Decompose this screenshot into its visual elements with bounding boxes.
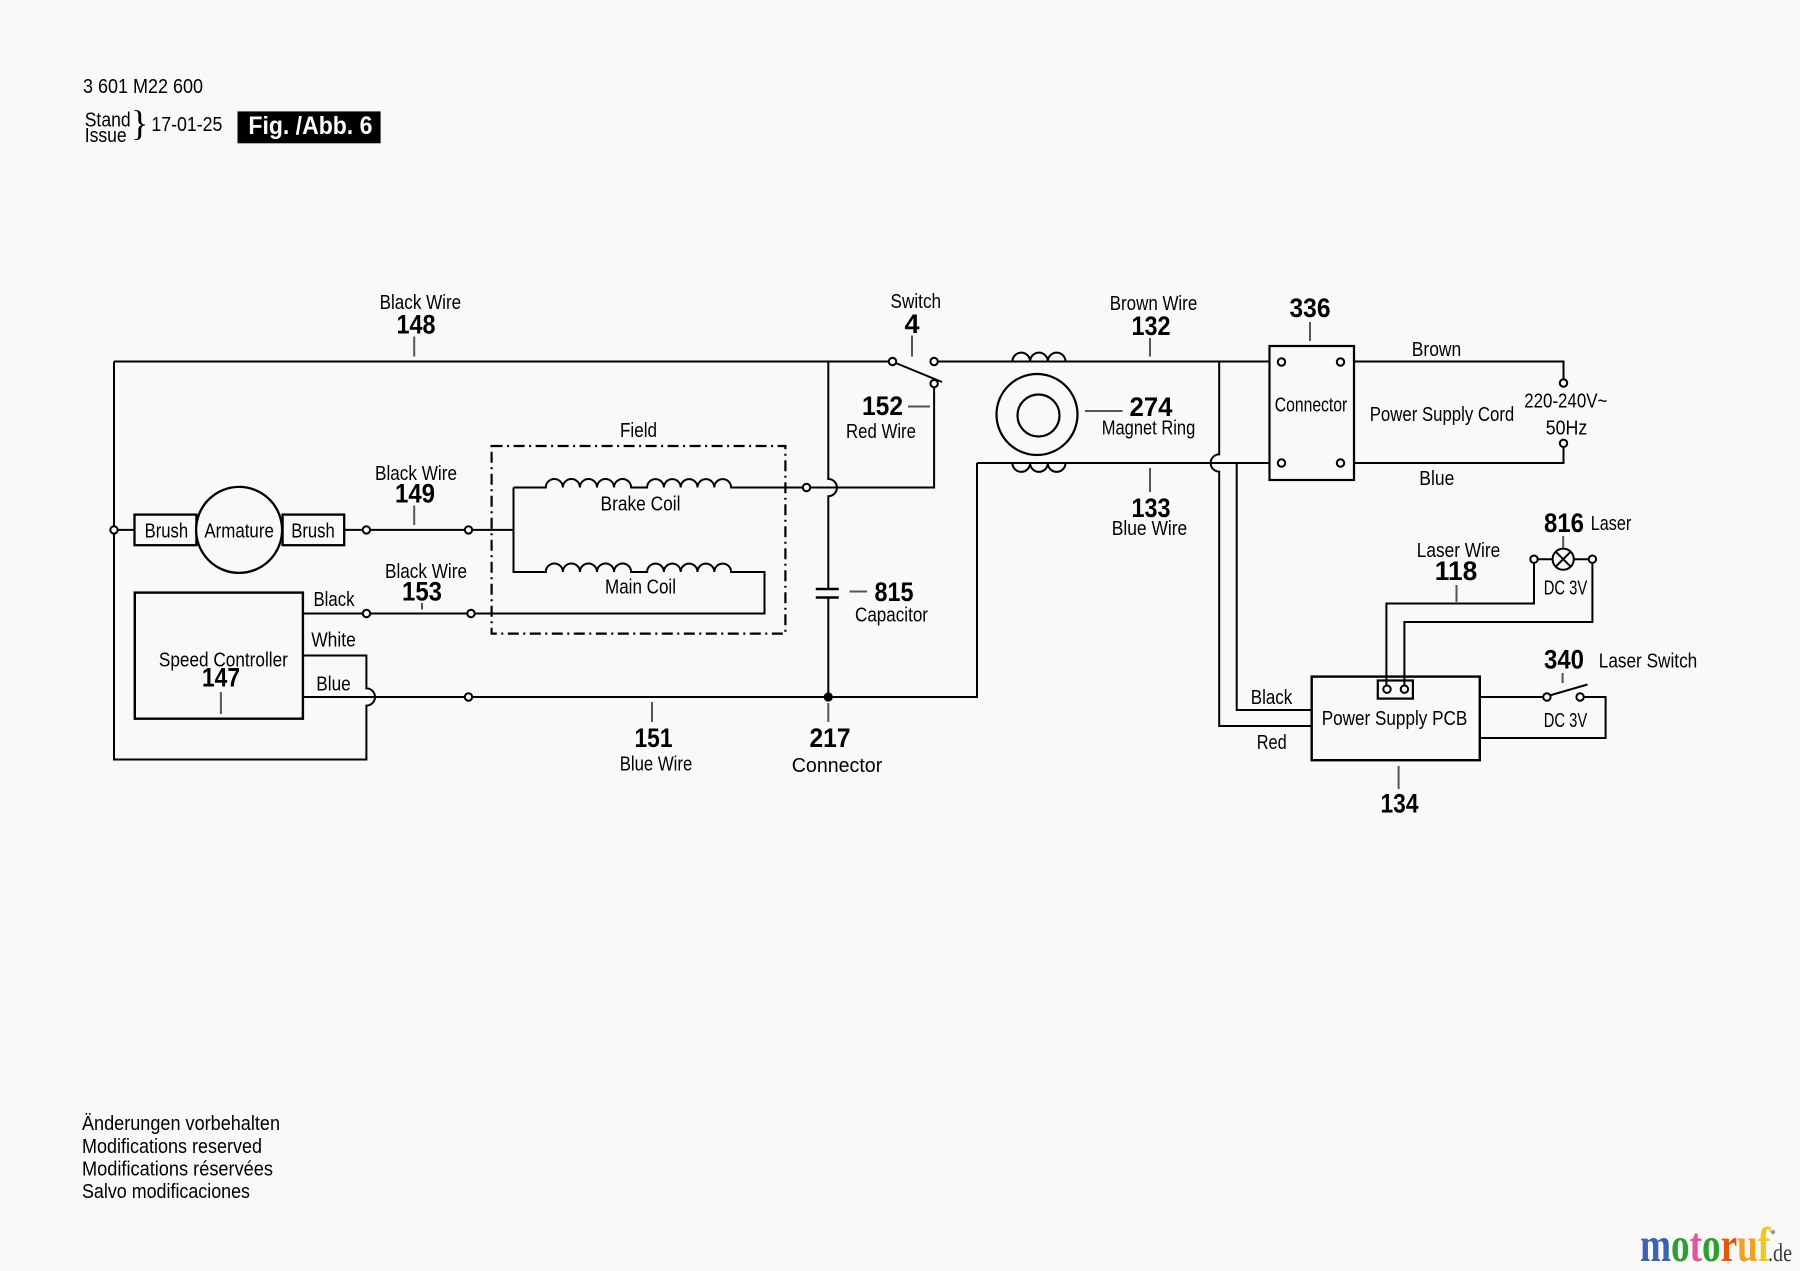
wire: laser switch return to PCB [1480,697,1606,738]
svg-text:134: 134 [1381,789,1419,819]
svg-text:Field: Field [620,420,657,442]
svg-text:118: 118 [1435,556,1478,586]
svg-text:Salvo modificaciones: Salvo modificaciones [82,1181,250,1203]
svg-text:Black: Black [1251,687,1293,709]
speed controller 147 [135,593,303,719]
svg-text:3 601 M22 600: 3 601 M22 600 [83,76,203,98]
connector circles on wire 153 [363,610,475,617]
brush (right) [283,515,345,546]
svg-text:147: 147 [202,663,240,693]
power supply cord blue lead [1354,448,1564,464]
svg-text:Modifications reserved: Modifications reserved [82,1136,262,1158]
svg-text:815: 815 [875,577,914,607]
label Brown Wire 132 [1110,293,1198,357]
label 151 Blue Wire [620,702,693,776]
svg-text:4: 4 [904,309,919,339]
svg-text:Red Wire: Red Wire [846,421,916,443]
svg-text:.de: .de [1768,1240,1792,1267]
svg-text:Connector: Connector [1275,395,1348,417]
svg-text:White: White [311,630,356,652]
power supply PCB 134 [1312,677,1480,761]
svg-text:151: 151 [635,723,673,753]
svg-text:17-01-25: 17-01-25 [151,114,222,136]
PCB header pins [1383,686,1408,693]
wire: black wire 148 (top rail, left of switch) [114,361,889,363]
label Black Wire 153 [385,561,467,610]
svg-text:Power Supply Cord: Power Supply Cord [1370,404,1515,426]
svg-text:}: } [131,103,148,143]
svg-text:Brown: Brown [1412,339,1462,361]
svg-text:220-240V~: 220-240V~ [1524,391,1607,413]
svg-text:Power Supply PCB: Power Supply PCB [1322,708,1468,730]
svg-text:Brush: Brush [291,521,335,543]
svg-text:motoruf: motoruf [1640,1218,1771,1271]
wire: blue wire 151 (speed controller to junction and magnet ring) [303,463,977,697]
stand/issue block [85,103,223,147]
label 340 Laser Switch [1544,645,1697,684]
wire: blue wire 133 (magnet ring bottom rail to connector 336) [977,462,1270,464]
wire: laser wire 118 (left lead) [1386,563,1534,685]
svg-text:148: 148 [397,310,436,340]
svg-text:Red: Red [1257,732,1287,754]
label 816 Laser [1544,508,1632,548]
label 134 [1381,766,1419,819]
svg-text:Laser: Laser [1591,513,1632,535]
svg-text:Connector: Connector [792,755,883,777]
label 152 Red Wire [846,391,930,443]
wire: black lead to PCB (from bottom rail) [1237,463,1312,710]
footer notes [82,1113,280,1203]
laser switch 340 contacts [1543,693,1584,700]
field box (dash-dot) [492,446,786,634]
svg-text:Black: Black [314,589,356,611]
label 274 Magnet Ring [1085,392,1195,440]
svg-text:Blue Wire: Blue Wire [620,754,693,776]
svg-text:Issue: Issue [85,125,127,147]
capacitor 815 plates [816,589,839,598]
svg-text:DC 3V: DC 3V [1544,578,1588,600]
svg-text:Magnet Ring: Magnet Ring [1102,418,1196,440]
cord terminal (blue) [1560,440,1567,447]
svg-text:Capacitor: Capacitor [855,605,928,627]
wire: capacitor branch (vertical, hops over red wire) [828,362,837,698]
power supply cord brown lead [1354,362,1564,379]
label Black Wire 149 [375,463,457,525]
svg-text:336: 336 [1290,293,1331,323]
svg-text:Fig. /Abb. 6: Fig. /Abb. 6 [248,112,372,140]
wire: left loop (white lead return, bottom wire, left vertical) [114,362,375,760]
wire: red lead to PCB (from top rail, hops over bottom rail) [1211,362,1312,727]
connector circle on wire 151 [465,693,472,700]
laser 816 symbol [1530,549,1596,570]
label Laser Wire 118 [1417,540,1501,602]
svg-text:816: 816 [1544,508,1584,538]
label 336 [1290,293,1331,341]
laser switch 340 blade [1550,685,1588,696]
svg-text:Brake Coil: Brake Coil [601,494,681,516]
magnet ring bottom coil [1012,463,1065,472]
svg-text:DC 3V: DC 3V [1544,710,1588,732]
label 815 Capacitor [850,577,929,627]
PCB connector header [1378,681,1413,699]
cord terminal (brown) [1560,379,1567,386]
motoruf.de logo [1640,1218,1792,1271]
svg-text:Armature: Armature [204,521,274,543]
svg-text:Blue Wire: Blue Wire [1112,518,1188,540]
brake coil [514,479,732,488]
svg-text:50Hz: 50Hz [1546,418,1588,440]
armature [196,487,282,573]
label 217 Connector [792,703,883,777]
figure label Fig./Abb. 6 [238,111,381,143]
wire: armature lead to field (wire 149) [114,529,514,531]
label 133 Blue Wire [1112,468,1188,540]
label Switch 4 [891,291,942,357]
label 220-240V~ 50Hz [1524,391,1607,440]
connector circles on wire 149 [110,526,472,533]
wire: top rail, right of switch to connector 336 [938,361,1270,363]
brush (left) [135,515,197,546]
svg-text:152: 152 [862,391,903,421]
svg-text:149: 149 [395,479,435,509]
svg-text:217: 217 [810,723,851,753]
magnet ring top coil [1012,353,1065,362]
svg-text:Modifications réservées: Modifications réservées [82,1159,273,1181]
main coil with bracket and return to wire 153 [303,488,765,614]
svg-text:Main Coil: Main Coil [605,577,676,599]
wire: laser wire 118 (right lead) [1404,563,1592,685]
wire: red wire 152 (switch to brake coil) [731,384,934,488]
svg-text:Laser Switch: Laser Switch [1599,651,1698,673]
connector circle (brake coil to red wire) [803,484,810,491]
svg-text:Blue: Blue [1419,468,1454,490]
label Black Wire 148 [380,292,462,357]
magnet ring 274 [997,374,1078,455]
svg-text:Brush: Brush [145,521,189,543]
connector 336 pins [1278,358,1344,466]
svg-text:340: 340 [1544,645,1584,675]
switch 4 blade [895,363,943,383]
wire: PCB to laser switch [1480,696,1543,698]
svg-text:153: 153 [402,577,442,607]
junction 217 (dot) [824,692,833,701]
svg-text:Blue: Blue [316,674,351,696]
svg-text:132: 132 [1132,311,1171,341]
connector 336 [1270,346,1355,480]
svg-text:Änderungen vorbehalten: Änderungen vorbehalten [82,1113,280,1135]
switch 4 contacts [889,358,938,388]
